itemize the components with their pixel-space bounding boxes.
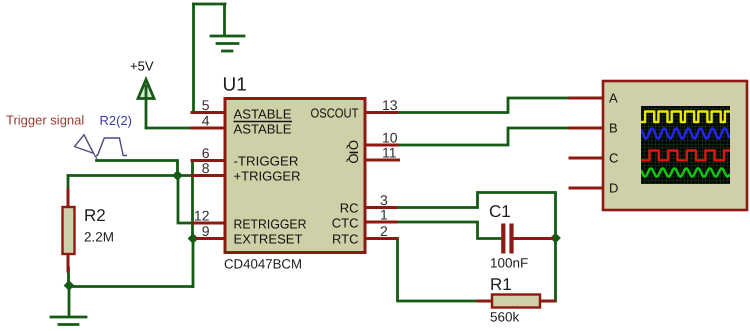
pin 6 stub xyxy=(192,159,224,162)
svg-text:RETRIGGER: RETRIGGER xyxy=(234,217,307,232)
junction dot B (pin6/pin9) xyxy=(188,233,199,244)
wire pin8 line from R2 top xyxy=(68,174,193,177)
wire +5V to pin 4 xyxy=(146,127,192,130)
svg-text:+TRIGGER: +TRIGGER xyxy=(234,169,301,184)
svg-text:5: 5 xyxy=(202,97,210,113)
pin 10 stub xyxy=(367,144,397,147)
probe arrow icon xyxy=(75,135,94,154)
IC U1 body xyxy=(225,99,365,253)
pin 1 stub xyxy=(367,221,396,224)
svg-text:R2: R2 xyxy=(84,206,106,225)
svg-text:CD4047BCM: CD4047BCM xyxy=(224,257,302,272)
svg-text:10: 10 xyxy=(382,130,398,146)
wire rail to ground (bottom-left) xyxy=(68,287,71,316)
trace A yellow square xyxy=(641,112,730,123)
pin 4 stub xyxy=(192,127,224,130)
wire pin9 junction down to bottom rail xyxy=(192,239,195,287)
svg-text:RC: RC xyxy=(340,201,359,216)
wire R2 top vertical xyxy=(67,176,70,193)
svg-text:OSCOUT: OSCOUT xyxy=(311,106,359,121)
pulse waveform icon xyxy=(96,138,127,156)
pin 5 stub xyxy=(192,111,224,114)
ground (bottom-left) xyxy=(51,317,86,325)
pin 8 stub xyxy=(192,174,224,177)
svg-text:EXTRESET: EXTRESET xyxy=(234,232,303,247)
R1 right lead xyxy=(540,300,554,303)
svg-text:B: B xyxy=(609,121,618,136)
probe arrow nub xyxy=(94,153,98,159)
pin 12 stub xyxy=(193,222,224,225)
wire junction to pin 12 xyxy=(178,176,194,224)
svg-text:2.2M: 2.2M xyxy=(84,230,114,245)
svg-text:4: 4 xyxy=(202,113,210,129)
wire pin6 down to pin9 junction xyxy=(191,161,194,239)
pin 11 stub xyxy=(367,159,399,162)
C1 right lead xyxy=(515,237,552,240)
svg-text:Q: Q xyxy=(346,153,361,163)
scope pin C stub xyxy=(570,157,601,160)
overline of Qbar xyxy=(350,152,359,154)
svg-text:8: 8 xyxy=(202,160,210,176)
svg-text:R1: R1 xyxy=(490,275,512,294)
pin 3 stub xyxy=(367,206,396,209)
pin 9 stub xyxy=(197,237,224,240)
svg-text:6: 6 xyxy=(202,145,210,161)
wire pin13 to scope A xyxy=(395,98,572,113)
svg-text:CTC: CTC xyxy=(332,216,359,231)
trace B blue sine xyxy=(641,128,730,138)
resistor R1 body xyxy=(492,295,540,308)
wire pin2 down to R1 left xyxy=(395,239,480,302)
svg-text:+5V: +5V xyxy=(130,59,154,74)
capacitor C1 plates xyxy=(503,224,511,254)
R2 top lead xyxy=(67,190,70,207)
ASTABLE overline separator xyxy=(234,121,293,123)
svg-text:C1: C1 xyxy=(489,202,511,221)
svg-text:2: 2 xyxy=(380,223,388,239)
svg-text:Q: Q xyxy=(346,140,361,150)
junction dot D (C1 right/R1) xyxy=(550,233,561,244)
scope screen xyxy=(641,106,730,184)
trace D green sine xyxy=(641,168,730,176)
svg-text:12: 12 xyxy=(194,208,210,224)
wire ground-top horizontal xyxy=(194,3,226,6)
svg-text:U1: U1 xyxy=(223,75,247,96)
svg-text:-TRIGGER: -TRIGGER xyxy=(234,154,299,169)
pin 2 stub xyxy=(367,237,397,240)
oscilloscope body xyxy=(603,81,747,210)
wire pin10 to scope B xyxy=(395,128,572,145)
svg-text:100nF: 100nF xyxy=(490,256,528,271)
trace C red square xyxy=(641,151,730,161)
svg-text:D: D xyxy=(609,181,618,196)
svg-text:Trigger signal: Trigger signal xyxy=(6,113,84,128)
svg-text:RTC: RTC xyxy=(332,232,358,247)
scope pin A stub xyxy=(570,97,601,100)
junction dot A (trigger/pin8) xyxy=(172,170,183,181)
svg-text:13: 13 xyxy=(382,97,398,113)
scope pin D stub xyxy=(570,187,601,190)
wire trigger signal to junction xyxy=(97,161,178,176)
scope grid xyxy=(641,106,730,184)
wire ground-top vertical to ground symbol xyxy=(223,4,226,34)
wire R2 bottom to rail xyxy=(67,268,70,287)
wire vertical into pin 5 xyxy=(192,4,195,113)
wire C1 right junction down to R1 xyxy=(553,238,556,301)
wire pin3 loop over C1 xyxy=(395,193,556,239)
svg-text:ASTABLE: ASTABLE xyxy=(234,107,292,122)
svg-text:R2(2): R2(2) xyxy=(100,113,133,128)
pin 13 stub xyxy=(367,111,397,114)
R1 left lead xyxy=(478,300,492,303)
ground (top) xyxy=(211,36,244,51)
wire pin1 to C1 left plate xyxy=(395,222,500,239)
svg-text:11: 11 xyxy=(382,145,397,161)
junction dot C (R2 bottom/ground) xyxy=(64,280,75,291)
svg-text:1: 1 xyxy=(380,207,388,223)
svg-text:A: A xyxy=(609,91,618,106)
wire bottom rail xyxy=(69,285,193,288)
svg-text:9: 9 xyxy=(202,223,210,239)
svg-text:560k: 560k xyxy=(490,310,520,325)
power +5V terminal xyxy=(138,80,154,129)
R2 bottom lead xyxy=(67,254,70,271)
scope pin B stub xyxy=(570,127,601,130)
resistor R2 body xyxy=(63,207,75,254)
svg-text:C: C xyxy=(609,151,618,166)
svg-text:ASTABLE: ASTABLE xyxy=(234,122,292,137)
